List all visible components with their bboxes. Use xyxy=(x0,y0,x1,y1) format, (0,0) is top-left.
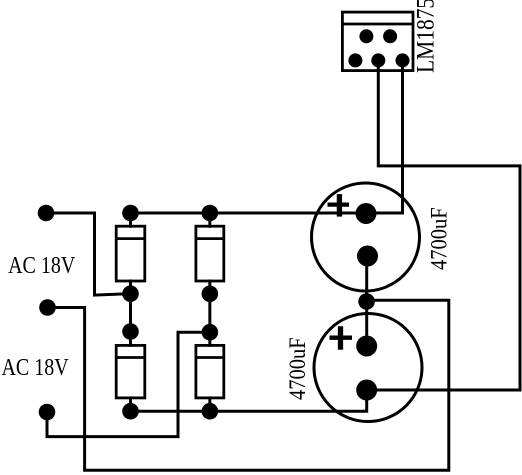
svg-text:LM1875: LM1875 xyxy=(412,0,440,73)
node J1 xyxy=(122,285,139,302)
node T1 AC input terminal xyxy=(38,205,55,222)
svg-text:4700uF: 4700uF xyxy=(284,337,311,400)
node JB1 xyxy=(122,403,139,420)
svg-text:AC 18V: AC 18V xyxy=(2,353,69,380)
wire top rail to C1 plus xyxy=(131,212,367,215)
node T2 AC input terminal xyxy=(39,299,56,316)
diode D4 xyxy=(196,345,224,398)
node J2 xyxy=(122,323,139,340)
wire U1 pin4 to C1 plus xyxy=(366,61,403,214)
wire AC1 terminal to bridge midpoint J1 xyxy=(46,213,131,295)
diode D1 xyxy=(116,226,145,281)
node JB2 xyxy=(202,403,219,420)
node rail junction left xyxy=(122,205,139,222)
wire AC3 terminal to J4 xyxy=(47,332,210,436)
wire left column stubs xyxy=(129,213,132,411)
capacitor C2 4700uF xyxy=(284,314,422,422)
node J4 xyxy=(202,324,219,341)
wire U1 pin3 right side down to C2 minus xyxy=(367,61,520,391)
node rail junction right xyxy=(202,205,219,222)
capacitor C1 4700uF xyxy=(312,183,452,291)
diode D3 xyxy=(116,345,145,398)
diode D2 xyxy=(196,226,224,281)
wire C1 minus to C2 plus through junction xyxy=(365,256,368,346)
node junction between capacitors xyxy=(358,293,375,310)
node J3 xyxy=(202,286,219,303)
wire right column stubs xyxy=(208,213,211,411)
svg-text:4700uF: 4700uF xyxy=(425,207,452,270)
op-amp U1 LM1875 package xyxy=(342,0,440,73)
svg-text:AC 18V: AC 18V xyxy=(8,251,75,278)
wire AC2 terminal bottom loop to cap junction xyxy=(48,300,449,470)
node T3 AC input terminal xyxy=(39,404,56,421)
wire bottom negative row to C2 minus stub xyxy=(131,390,367,411)
